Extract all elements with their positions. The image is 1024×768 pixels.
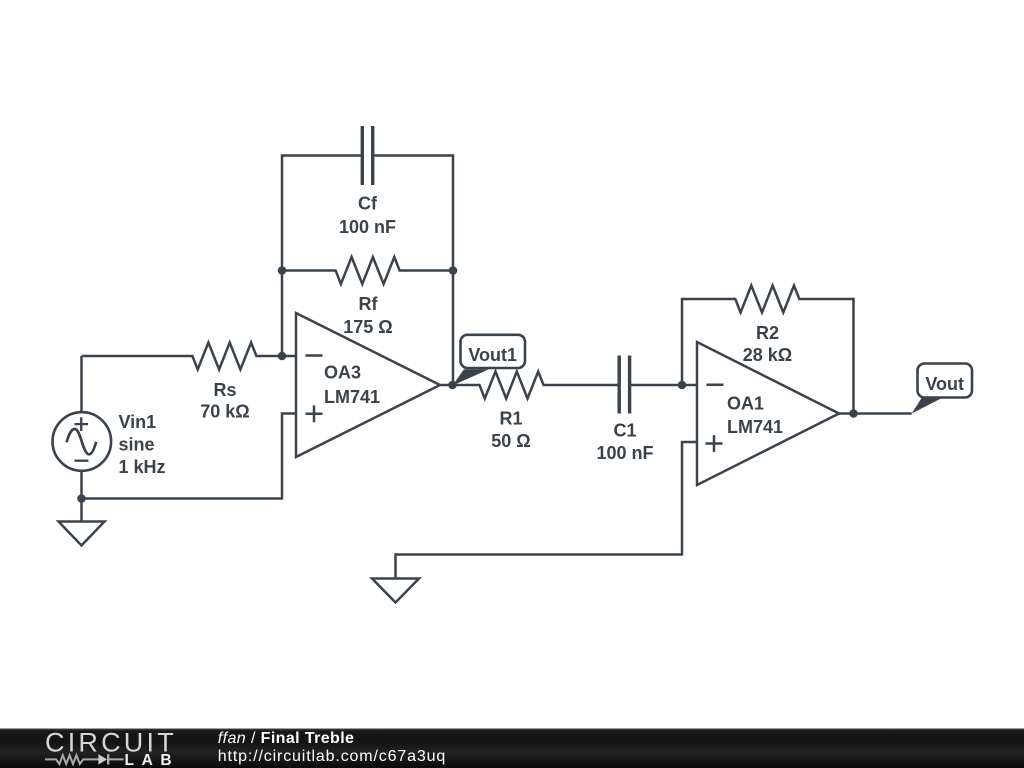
- node dot OA3 output: [448, 381, 457, 390]
- node dot OA1 output: [849, 409, 858, 418]
- svg-text:Rf: Rf: [359, 294, 379, 314]
- wire OA1 output: [839, 412, 912, 415]
- svg-text:Vout: Vout: [925, 374, 964, 394]
- label Rs value: [200, 380, 249, 422]
- op-amp OA1 plus sign: [706, 435, 723, 452]
- wire OA1 plus input to ground: [396, 442, 698, 579]
- resistor R2 feedback loop with leads: [682, 286, 854, 414]
- footer url text: [218, 748, 446, 765]
- svg-text:28 kΩ: 28 kΩ: [743, 345, 792, 365]
- op-amp OA3 plus sign: [306, 405, 323, 422]
- svg-text:LM741: LM741: [727, 417, 783, 437]
- resistor Rf with leads: [282, 257, 453, 284]
- label Cf value: [339, 194, 396, 238]
- op-amp OA3 minus sign: [306, 354, 323, 357]
- label Vin1 value: [119, 412, 166, 477]
- voltage source sine symbol: [67, 429, 97, 454]
- node dot OA3 minus input: [278, 352, 287, 361]
- op-amp OA1 triangle: [697, 342, 839, 485]
- svg-text:Vin1: Vin1: [119, 412, 157, 432]
- svg-text:C1: C1: [613, 421, 636, 441]
- op-amp OA1 minus sign: [707, 383, 724, 386]
- flag Vout: [912, 364, 972, 414]
- label Rf value: [343, 294, 392, 337]
- svg-text:Rs: Rs: [213, 380, 236, 400]
- footer title text: [218, 730, 355, 747]
- flag Vout1: [453, 335, 526, 386]
- node dot Rf right: [449, 266, 458, 275]
- wire source bottom: [80, 471, 83, 522]
- svg-text:100 nF: 100 nF: [339, 217, 396, 237]
- node dot source bottom: [77, 494, 86, 503]
- CircuitLab logo CIRCUIT text: [45, 728, 177, 758]
- voltage source minus sign: [75, 460, 89, 462]
- svg-text:100 nF: 100 nF: [596, 443, 653, 463]
- CircuitLab logo resistor-diode glyph: [45, 754, 124, 764]
- svg-text:50 Ω: 50 Ω: [491, 431, 530, 451]
- CircuitLab logo LAB text: [125, 752, 180, 768]
- voltage source Vin1 circle: [53, 412, 112, 471]
- capacitor C1: [619, 356, 697, 414]
- footer bar: [0, 729, 1024, 768]
- svg-text:LAB: LAB: [125, 752, 180, 768]
- node dot OA1 minus input: [678, 381, 687, 390]
- resistor R1 with leads from OA3 output: [440, 372, 619, 399]
- wire feedback left vertical: [282, 156, 362, 357]
- label C1 value: [596, 421, 653, 464]
- svg-text:Vout1: Vout1: [468, 345, 517, 365]
- svg-text:OA3: OA3: [324, 363, 361, 383]
- resistor Rs with leads: [82, 343, 297, 370]
- svg-text:ffan / Final Treble: ffan / Final Treble: [218, 730, 355, 747]
- svg-text:http://circuitlab.com/c67a3uq: http://circuitlab.com/c67a3uq: [218, 748, 446, 765]
- ground (Vin1): [59, 522, 105, 546]
- svg-text:Cf: Cf: [358, 194, 378, 214]
- capacitor Cf: [362, 126, 372, 185]
- label OA1 name: [727, 394, 783, 438]
- node dot Rf left: [278, 266, 287, 275]
- svg-text:70 kΩ: 70 kΩ: [200, 402, 249, 422]
- wire bottom rail to op-amp plus: [82, 414, 297, 499]
- label OA3 name: [324, 363, 380, 408]
- svg-text:sine: sine: [119, 435, 155, 455]
- ground (OA1 plus): [372, 579, 419, 603]
- svg-text:175 Ω: 175 Ω: [343, 317, 392, 337]
- voltage source plus sign: [74, 417, 88, 431]
- label R2 value: [743, 323, 792, 365]
- svg-text:R2: R2: [756, 323, 779, 343]
- svg-text:OA1: OA1: [727, 394, 764, 414]
- svg-text:1 kHz: 1 kHz: [119, 457, 166, 477]
- wire Vin1 top to Rs rail: [80, 356, 83, 413]
- label R1 value: [491, 409, 530, 452]
- svg-text:R1: R1: [499, 409, 522, 429]
- wire feedback right top: [373, 156, 453, 386]
- op-amp OA3 triangle: [296, 313, 440, 457]
- svg-text:LM741: LM741: [324, 387, 380, 407]
